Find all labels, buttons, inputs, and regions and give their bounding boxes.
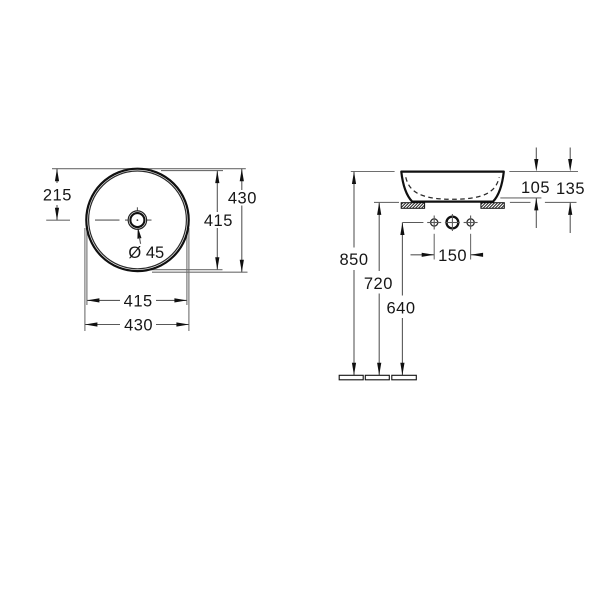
extension line rim right (y=171.5) (509, 171, 578, 173)
floor tile bar middle (365, 375, 389, 380)
dimension 850 (rim to floor) (339, 172, 368, 376)
overflow hole center (445, 214, 460, 231)
label diameter 45 with leader arrow (128, 227, 164, 262)
extension line outer bottom right (135, y=202.4) (510, 201, 577, 203)
floor tile bar right (392, 375, 417, 380)
drain center dot (137, 219, 139, 221)
drain inner circle (130, 213, 144, 227)
dimension 430 (bottom horizontal) (85, 317, 189, 335)
tap hole left (crosshair) (427, 216, 441, 230)
dimension 430 (right vertical of circle) (228, 169, 257, 273)
extension line counter left (y=202.4) (374, 201, 399, 203)
svg-text:430: 430 (228, 190, 257, 208)
svg-text:215: 215 (43, 186, 72, 204)
extension line right vertical pair (bottom dims) (187, 228, 189, 331)
extension line top (215/430 top, y=168.7) (52, 168, 246, 170)
dimension 640 (tap line to floor) (386, 223, 415, 376)
centerline vertical through drain (136, 207, 138, 228)
basin outer circle (top view) (86, 169, 188, 271)
svg-text:135: 135 (556, 180, 585, 198)
countertop hatched section right (476, 202, 510, 209)
dimension 215 (left vertical) (43, 169, 72, 221)
dimension 105 (rim to inner bottom) (521, 148, 550, 229)
floor tile bar left (339, 375, 363, 380)
extension line left vertical pair (bottom dims) (85, 228, 87, 331)
dimension 135 (rim to basin bottom) (556, 148, 585, 234)
tap hole right (crosshair) (464, 216, 478, 230)
extension line inner bottom right (105, y=197.9) (500, 197, 541, 199)
dimension 415 (bottom horizontal) (87, 292, 187, 310)
svg-text:415: 415 (124, 292, 153, 310)
basin inner rim circle (top view) (89, 171, 187, 269)
svg-text:850: 850 (339, 251, 368, 269)
extension line bottom inner (415 bottom, y=269.7) (150, 269, 223, 271)
basin profile (side view) (401, 172, 504, 202)
dimension 415 (inner vertical of circle) (204, 171, 233, 270)
dimension 150 (tap hole spacing) (411, 234, 484, 265)
extension line top inner (415 top, y=170.6) (161, 170, 223, 172)
centerline horizontal through circle (95, 219, 152, 221)
svg-text:430: 430 (124, 317, 153, 335)
countertop hatched section left (397, 202, 431, 209)
drain outer circle (128, 211, 146, 229)
svg-text:105: 105 (521, 179, 550, 197)
svg-text:640: 640 (386, 300, 415, 318)
dimension 720 (counter to floor) (364, 202, 393, 375)
holes centerline leader (402, 222, 423, 224)
svg-text:150: 150 (438, 247, 467, 265)
svg-text:415: 415 (204, 212, 233, 230)
svg-text:720: 720 (364, 275, 393, 293)
extension line bottom outer (430 bottom, y=272.2) (152, 271, 248, 273)
basin inner bottom dashed curve (406, 177, 499, 199)
extension line rim left (y=171.5) (351, 171, 395, 173)
svg-text:Ø 45: Ø 45 (128, 244, 164, 262)
